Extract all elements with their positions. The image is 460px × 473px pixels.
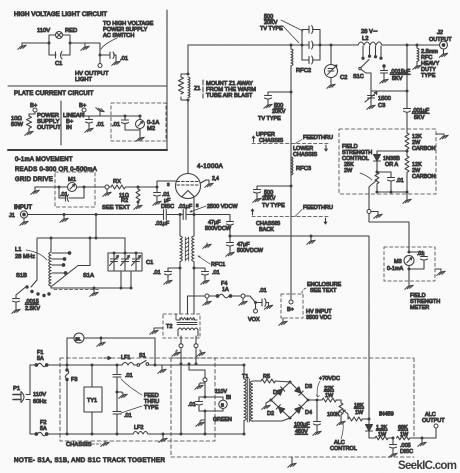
leader to AC switch note xyxy=(101,38,117,49)
capacitor 100uF 450V xyxy=(314,400,321,430)
resistor 68K 1W xyxy=(397,436,437,440)
diode D4 xyxy=(295,405,303,413)
ground on input line xyxy=(63,213,66,216)
inductor L1 xyxy=(49,238,51,288)
ground on tank bottom xyxy=(93,287,96,290)
T2 primary leads xyxy=(181,336,196,344)
node to tank xyxy=(95,213,98,216)
diode D3 xyxy=(295,387,303,395)
ground on ALC wire xyxy=(421,437,424,440)
node xyxy=(137,186,140,189)
switch S1A arm xyxy=(52,238,90,286)
resistor 18K 1W xyxy=(348,417,369,421)
variable capacitor C3 1500 xyxy=(365,92,377,104)
capacitor .01 fil right xyxy=(194,268,209,279)
blower BL xyxy=(74,333,84,343)
T2 center tap riser xyxy=(188,296,206,314)
capacitor C1 output xyxy=(100,52,116,60)
tube envelope xyxy=(176,174,201,199)
+70VDC rail xyxy=(308,399,322,401)
lamp loop wires xyxy=(49,35,70,55)
relay TY1 xyxy=(84,387,102,412)
field strength control pot 25K xyxy=(377,171,391,173)
capacitor 500 20KV (lower) xyxy=(254,186,292,197)
variable capacitor C1c xyxy=(132,253,141,271)
ground floating right of RFC1 xyxy=(203,243,211,248)
ground top right of box xyxy=(436,133,444,135)
diode 1N38B xyxy=(374,155,381,162)
ALC bottom wire xyxy=(369,437,375,439)
ground left grid wire xyxy=(34,187,36,189)
pot wiper to 18K xyxy=(343,410,348,419)
RFC3 xyxy=(291,157,293,175)
wire tank output xyxy=(371,90,407,92)
bridge ground xyxy=(266,400,271,404)
wire xyxy=(29,112,35,116)
wire rail xyxy=(84,112,140,116)
T2 windings xyxy=(176,314,197,320)
HV feed vertical wire xyxy=(290,68,292,299)
ground on AC wire xyxy=(161,365,163,368)
wire down to tank xyxy=(95,215,97,239)
resistor 10 ohm 50W xyxy=(27,116,32,130)
lamp 110V RED xyxy=(56,32,63,39)
coupling caps box xyxy=(302,30,320,61)
capacitor .01 under M1 xyxy=(59,187,84,202)
wire xyxy=(70,42,100,44)
ground on rail xyxy=(99,113,101,116)
wire corner to 47uF xyxy=(229,215,231,222)
C1 box legs xyxy=(121,271,131,288)
L2 taps xyxy=(363,46,381,57)
capacitor .01 disc xyxy=(154,187,161,200)
pilot return xyxy=(204,411,206,434)
capacitor .0015 2.5KV xyxy=(13,299,20,309)
bridge rectifier diamond xyxy=(271,382,308,418)
field strength control dashed box xyxy=(339,129,436,194)
RFC1 bifilar choke xyxy=(180,236,182,262)
AC top wire xyxy=(48,364,244,366)
filament legs xyxy=(179,213,182,216)
wire to grid xyxy=(138,181,176,187)
HV output light terminal xyxy=(98,64,102,68)
capacitor 500 20KV (upper) xyxy=(265,92,292,103)
capacitor .0015uF 5KV xyxy=(383,65,385,67)
capacitor .01 meter xyxy=(409,252,428,269)
capacitor .01 pilot xyxy=(196,402,203,406)
blower return leg xyxy=(154,338,156,365)
tube plate lead wire xyxy=(187,45,189,174)
section divider horizontal top xyxy=(8,85,167,87)
ground below B+ box xyxy=(282,318,284,320)
resistor 22K 1W xyxy=(322,398,341,402)
capacitor .01 fil left xyxy=(165,268,181,279)
B+ enclosure dashed box xyxy=(281,294,303,318)
node xyxy=(48,42,51,45)
field meter dashed box xyxy=(384,247,435,281)
C1 tune box xyxy=(108,253,142,271)
capacitor .01 field box xyxy=(388,172,395,192)
T2 shield ground xyxy=(154,328,163,329)
S1A mechanical dashed link xyxy=(54,289,100,291)
ALC sense wire xyxy=(230,236,369,419)
tank bottom wire xyxy=(51,286,131,288)
ground left of lamp circuit xyxy=(21,43,23,44)
resistor 12K 2W carbon lower xyxy=(405,151,409,192)
filament rails to T2 xyxy=(180,262,194,314)
ground mid xyxy=(84,43,86,45)
variable capacitor C2 xyxy=(330,45,332,65)
pilot lamp box xyxy=(199,397,223,411)
wire to diode xyxy=(377,151,407,154)
capacitor .01 vox xyxy=(256,299,269,307)
capacitor 47uF 500VDCW upper xyxy=(227,222,234,237)
resistor R2 11 ohm xyxy=(136,187,140,202)
feedthru terminal 2 xyxy=(241,294,245,298)
meter M2 xyxy=(136,120,145,129)
variable capacitor C1b xyxy=(121,253,130,271)
pot 100K xyxy=(339,400,343,420)
section divider thick xyxy=(8,149,167,151)
T1 secondary bottom wire xyxy=(253,418,291,421)
feedthru terminal xyxy=(205,294,209,298)
wire S1C down xyxy=(370,73,372,95)
capacitor C1 (lamp) xyxy=(56,52,63,60)
capacitor .005 disc xyxy=(390,438,397,452)
wire corner down xyxy=(99,43,101,63)
tube filament xyxy=(182,191,194,197)
chassis dashed box xyxy=(60,358,215,441)
capacitor 500pF bottom xyxy=(302,56,320,64)
ground on AC bottom wire xyxy=(162,433,165,436)
meter M2 dashed box xyxy=(111,103,166,141)
RFC2 plate choke xyxy=(291,45,293,68)
feedthru capacitor .01 top xyxy=(113,365,121,434)
wire to field meter xyxy=(369,214,409,253)
wire down to 125 from top xyxy=(124,238,126,253)
Z1 parasitic suppressor xyxy=(187,73,190,76)
diode D1 xyxy=(276,387,284,395)
capacitor 500pF top xyxy=(302,26,320,34)
resistor 12K 2W carbon upper xyxy=(405,129,409,151)
capacitor 500pF mid xyxy=(302,41,320,49)
capacitor .01 in box xyxy=(122,116,141,130)
meter M3 xyxy=(408,251,411,254)
wire to J2 xyxy=(407,44,440,46)
variable capacitor C1a xyxy=(110,253,119,271)
pilot light leg xyxy=(180,364,182,434)
capacitor .01uF left xyxy=(164,210,167,220)
plate line wire xyxy=(188,44,358,46)
bottom rail field box xyxy=(377,191,407,193)
filament drive line xyxy=(160,214,230,216)
nodes on AC wire xyxy=(180,363,183,366)
ground right of meter box xyxy=(435,269,441,270)
wire grid metering xyxy=(35,186,105,188)
B+ HV terminal xyxy=(289,300,293,304)
L1 taps xyxy=(52,253,68,273)
tank top wire xyxy=(37,237,125,239)
ground under PSU enclosure xyxy=(291,457,293,462)
wiper line to feedthru xyxy=(368,187,370,210)
capacitor .01uF 2500VDCW xyxy=(183,210,186,220)
divider xyxy=(60,101,62,145)
terminal on grid wire xyxy=(105,185,109,189)
wire jog xyxy=(245,296,256,303)
PSU enclosure dashed box xyxy=(171,358,414,457)
VOX terminal xyxy=(255,303,257,310)
vertical output leg xyxy=(406,45,408,108)
capacitor 47uF 500VDCW lower xyxy=(227,236,234,251)
T2 dashed box xyxy=(163,314,200,338)
wire xyxy=(22,42,49,44)
capacitor .01 linear xyxy=(86,116,93,127)
pins 2,4 wire xyxy=(201,180,210,183)
AC bottom wire xyxy=(48,433,244,435)
capacitor .001uF 5KV xyxy=(404,109,411,130)
resistor 1.2K 1W xyxy=(375,436,393,440)
cathode pin wire xyxy=(193,198,195,215)
wire input line xyxy=(28,214,160,216)
tube grids dashed xyxy=(177,182,199,186)
feedthru lower dashed xyxy=(252,216,328,218)
mount note bracket xyxy=(202,80,204,98)
bridge corner nodes xyxy=(270,399,273,402)
feedthru upper dashed xyxy=(252,143,328,145)
meter M1 dashed box xyxy=(55,172,95,207)
chassis box arrow xyxy=(104,356,111,359)
lamp 110V green xyxy=(219,400,227,408)
section divider vertical xyxy=(166,10,168,150)
ALC output terminal xyxy=(435,428,437,438)
RFC heavy duty xyxy=(417,45,419,64)
diode D2 xyxy=(276,405,284,413)
